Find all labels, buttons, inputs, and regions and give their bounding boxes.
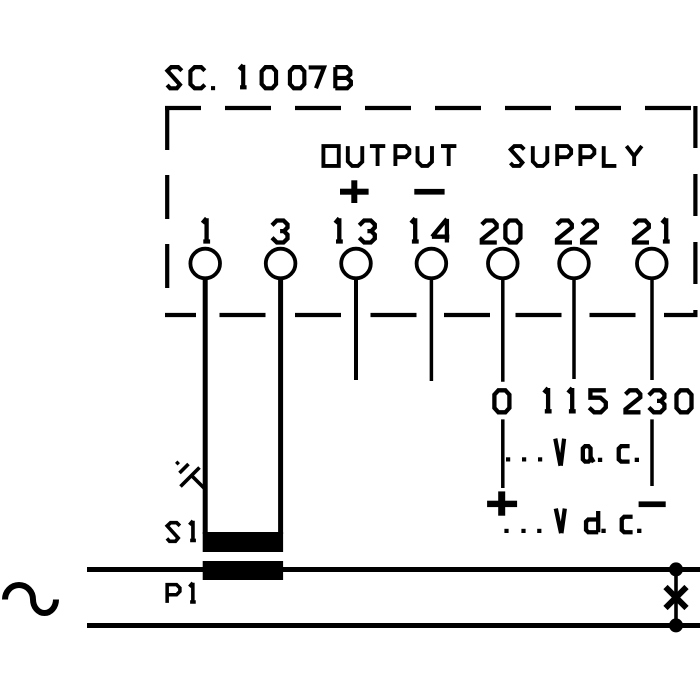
junction dot lower [669,618,683,632]
P1 primary winding bar [203,561,283,580]
terminal circle pin 21 [637,249,667,279]
load branch wire [674,570,678,626]
supply tap label 230 [626,390,692,412]
annotation ... V a.c. [506,439,639,466]
lower line conductor [87,623,700,628]
supply tap label 0 [494,390,509,412]
label S1 (CT secondary) [167,521,196,542]
terminal circle pin 14 [417,249,447,279]
pin number 21 [634,218,670,242]
output polarity + (above pin 13) [340,180,369,203]
dc polarity - (230 V tap) [639,501,666,507]
S1 secondary winding bar [203,532,283,552]
AC source symbol [5,585,56,613]
pin number 14 [411,218,449,242]
wire pin 3 to S1 winding [278,278,283,534]
terminal circle pin 22 [559,249,589,279]
pin number 22 [557,221,597,243]
pin number 3 [272,221,288,243]
pin number 1 [203,218,211,241]
supply tap label 115 [544,388,606,412]
wire pin 22 stub [572,278,576,379]
terminal circle pin 13 [341,249,371,279]
upper line conductor [87,567,700,572]
label P1 (CT primary) [167,583,196,603]
pin number 20 [482,221,521,243]
wire pin 21 upper segment [650,278,654,380]
output polarity - (above pin 14) [414,189,444,195]
wire pin 1 to S1 winding [203,278,208,534]
dc polarity + (0 V tap) [487,491,517,515]
junction dot upper [669,562,683,576]
pin number 13 [335,218,375,242]
terminal circle pin 3 [266,249,296,279]
label SUPPLY [510,146,641,166]
terminal circle pin 20 [488,249,518,279]
terminal circle pin 1 [190,249,220,279]
load (lamp) symbol X [666,587,687,608]
annotation ... V d.c. [504,509,641,534]
relay module box U1 (dashed outline) [165,106,698,317]
wire pin 20 lower segment (0 V tap to + dc) [501,419,505,488]
label: module title SC. 1007B [167,65,351,90]
wire pin 20 upper segment [501,278,505,382]
label OUTPUT [323,146,456,166]
wire pin 21 lower segment (230 V tap to - dc) [650,419,654,486]
wire pin 13 stub [354,278,358,380]
earth/screen symbol on pin-1 wire [176,462,204,489]
wire pin 14 stub [430,278,434,381]
